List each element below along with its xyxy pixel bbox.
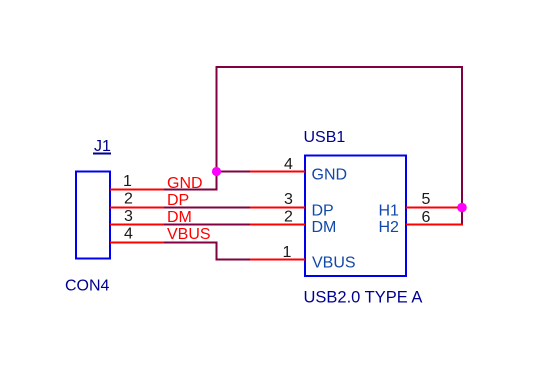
svg-text:H1: H1 bbox=[379, 203, 400, 220]
wire VBUS bbox=[164, 243, 250, 260]
svg-text:VBUS: VBUS bbox=[312, 254, 356, 271]
wire GND riser to top rail bbox=[216, 67, 218, 173]
svg-text:3: 3 bbox=[124, 208, 133, 225]
svg-text:6: 6 bbox=[422, 209, 431, 226]
junction dot GND bbox=[212, 167, 221, 176]
svg-text:4: 4 bbox=[124, 226, 133, 243]
svg-text:3: 3 bbox=[284, 191, 293, 208]
svg-text:1: 1 bbox=[123, 173, 132, 190]
wire GND junction to USB pin4 bbox=[217, 171, 251, 173]
wire GND from J1 pin1 to riser bbox=[164, 172, 218, 190]
svg-text:USB1: USB1 bbox=[304, 129, 346, 146]
svg-text:5: 5 bbox=[422, 191, 431, 208]
svg-text:VBUS: VBUS bbox=[167, 226, 211, 243]
svg-text:J1: J1 bbox=[94, 138, 111, 155]
wire right riser bbox=[461, 66, 463, 225]
svg-text:2: 2 bbox=[284, 209, 293, 226]
svg-text:4: 4 bbox=[284, 156, 293, 173]
wire top rail bbox=[216, 66, 464, 68]
svg-text:USB2.0 TYPE A: USB2.0 TYPE A bbox=[304, 289, 423, 307]
svg-text:DM: DM bbox=[312, 219, 337, 236]
USB1 pin 4 bbox=[250, 171, 305, 173]
svg-text:DP: DP bbox=[167, 192, 189, 209]
junction dot H1/H2 bbox=[457, 203, 467, 213]
J1 pin 2 bbox=[110, 207, 164, 209]
USB1 pin 5 bbox=[406, 207, 458, 209]
svg-text:CON4: CON4 bbox=[65, 278, 110, 295]
svg-text:H2: H2 bbox=[379, 219, 400, 236]
svg-text:GND: GND bbox=[312, 167, 348, 184]
J1 pin 1 bbox=[110, 189, 164, 191]
USB1 pin 6 bbox=[406, 224, 463, 226]
USB1 pin 3 bbox=[250, 207, 305, 209]
USB1 pin 2 bbox=[250, 224, 305, 226]
wire DP bbox=[164, 207, 250, 209]
connector J1 body bbox=[76, 172, 110, 259]
svg-text:DM: DM bbox=[167, 209, 192, 226]
wire DM bbox=[164, 224, 250, 226]
J1 pin 4 bbox=[110, 242, 164, 244]
USB1 body bbox=[305, 156, 406, 277]
svg-text:2: 2 bbox=[124, 191, 133, 208]
svg-text:1: 1 bbox=[283, 244, 292, 261]
designator J1 bbox=[93, 138, 111, 155]
J1 pin 3 bbox=[110, 224, 164, 226]
USB1 pin 1 bbox=[250, 259, 305, 261]
svg-text:DP: DP bbox=[312, 203, 334, 220]
